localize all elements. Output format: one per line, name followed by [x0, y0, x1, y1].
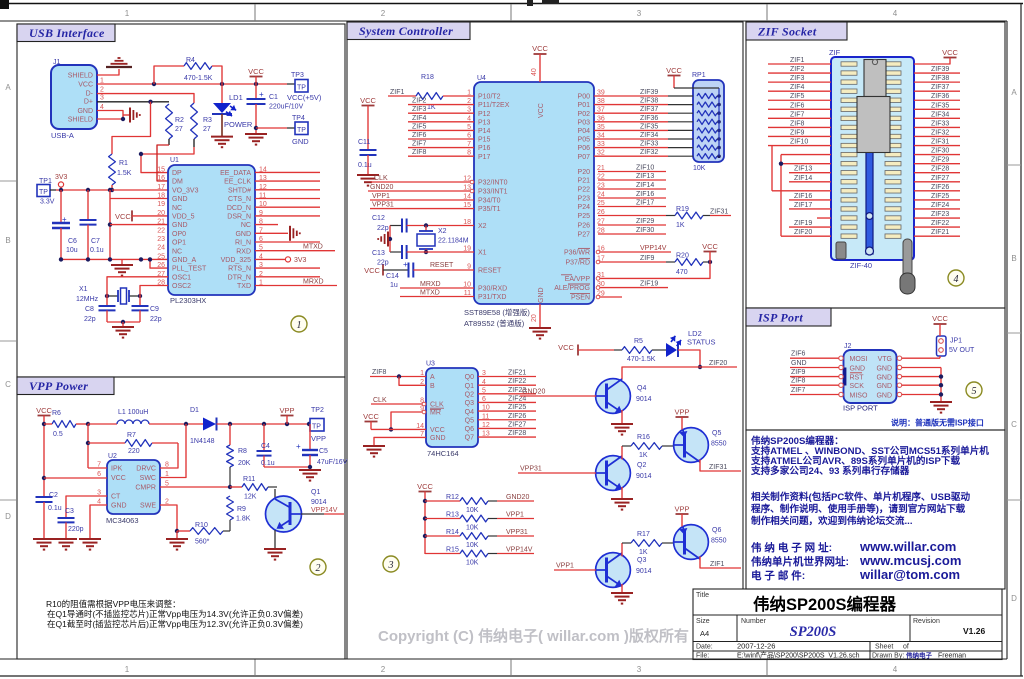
capacitor C7 0.1u	[87, 190, 89, 219]
svg-text:VCC: VCC	[363, 412, 379, 421]
ZIF socket pads	[841, 62, 857, 66]
transistor Q1 9014	[274, 489, 276, 499]
svg-text:ZIF5: ZIF5	[412, 123, 426, 130]
svg-text:NC: NC	[172, 205, 182, 212]
svg-text:ZIF35: ZIF35	[640, 123, 658, 130]
svg-text:10K: 10K	[693, 165, 706, 172]
svg-text:ZIF4: ZIF4	[412, 115, 426, 122]
resistor R13 10K	[425, 518, 460, 520]
svg-text:47uF/16V: 47uF/16V	[317, 459, 348, 466]
svg-text:MOSI: MOSI	[850, 356, 868, 363]
capacitor C14 1u	[408, 263, 410, 278]
svg-text:VPP31: VPP31	[506, 529, 528, 536]
svg-text:ZIF39: ZIF39	[640, 89, 658, 96]
svg-text:R8: R8	[238, 448, 247, 455]
svg-text:ZIF7: ZIF7	[790, 111, 804, 118]
svg-text:ZIF19: ZIF19	[640, 281, 658, 288]
wire R7 to DRVC	[160, 443, 178, 468]
capacitor C9 22p	[132, 305, 149, 307]
ZIF chip large gray	[857, 97, 890, 153]
ZIF left bracket wires	[771, 146, 773, 191]
svg-text:伟纳SP200S编程器: 伟纳SP200S编程器	[753, 594, 897, 614]
svg-text:P34/T0: P34/T0	[478, 198, 501, 205]
chassis ground at J1 GND	[123, 114, 130, 116]
svg-text:ZIF33: ZIF33	[640, 141, 658, 148]
wire VCC pin6	[44, 477, 107, 479]
svg-text:3V3: 3V3	[294, 257, 307, 264]
svg-text:在Q1截至时(插监控芯片后)正常Vpp电压为12.3V(允许: 在Q1截至时(插监控芯片后)正常Vpp电压为12.3V(允许正负0.3V偏差)	[47, 619, 303, 629]
svg-text:MRXD: MRXD	[420, 281, 441, 288]
section number 3	[383, 556, 399, 572]
wire SWC riser	[160, 424, 186, 478]
svg-text:Copyright (C) 伟纳电子( willar.com: Copyright (C) 伟纳电子( willar.com )版权所有	[378, 627, 689, 645]
svg-text:VPP Power: VPP Power	[29, 379, 88, 393]
svg-text:ZIF3: ZIF3	[790, 75, 804, 82]
svg-text:J2: J2	[844, 343, 852, 350]
ground below U3	[363, 445, 385, 447]
svg-text:P30/RXD: P30/RXD	[478, 286, 507, 293]
svg-text:P26: P26	[578, 223, 591, 230]
svg-text:www.mcusj.com: www.mcusj.com	[859, 553, 961, 568]
svg-text:OP0: OP0	[172, 231, 186, 238]
svg-text:X2: X2	[478, 223, 487, 230]
resistor R10 560*	[177, 530, 190, 532]
svg-text:伟 纳 电 子 网 址:: 伟 纳 电 子 网 址:	[751, 541, 832, 554]
svg-text:Q1: Q1	[311, 489, 320, 496]
svg-text:NC: NC	[241, 222, 251, 229]
svg-text:ZIF30: ZIF30	[931, 148, 949, 155]
ZIF chip small gray	[864, 60, 886, 97]
transistor Q2 9014	[596, 456, 631, 491]
svg-text:A: A	[1011, 88, 1017, 97]
ground below rail	[121, 259, 123, 264]
svg-text:CLK: CLK	[374, 175, 388, 182]
svg-text:C5: C5	[319, 448, 328, 455]
svg-text:GND: GND	[850, 365, 866, 372]
capacitor C8 22p	[99, 305, 116, 307]
svg-text:VPP: VPP	[311, 434, 326, 443]
U4 pin29 stub	[600, 296, 622, 298]
svg-text:EA/VPP: EA/VPP	[565, 276, 591, 283]
wire U1 pin21 gnd	[110, 224, 168, 226]
svg-text:VO_3V3: VO_3V3	[172, 187, 199, 194]
ground below Q4	[611, 423, 633, 425]
svg-text:Sheet: Sheet	[875, 644, 893, 651]
J2 right wires	[902, 357, 940, 359]
svg-text:21: 21	[157, 219, 165, 226]
wire U1 pin7 gnd	[255, 232, 288, 234]
svg-text:12MHz: 12MHz	[76, 296, 99, 303]
svg-text:ZIF3: ZIF3	[412, 106, 426, 113]
svg-text:C2: C2	[49, 492, 58, 499]
svg-text:40: 40	[531, 68, 538, 76]
wire Q5 collector ZIF31	[700, 459, 741, 471]
svg-text:Drawn By:: Drawn By:	[872, 653, 904, 660]
svg-text:ZIF13: ZIF13	[794, 166, 812, 173]
svg-text:VCC: VCC	[36, 406, 52, 415]
wire SWE to R10	[160, 505, 177, 531]
svg-text:U2: U2	[108, 453, 117, 460]
ZIF Socket header	[746, 22, 847, 40]
svg-text:在Q1导通时(不插监控芯片)正常Vpp电压为14.3V(允许: 在Q1导通时(不插监控芯片)正常Vpp电压为14.3V(允许正负0.3V偏差)	[47, 609, 303, 619]
IC U4 AT89S52	[474, 82, 594, 304]
svg-text:TP3: TP3	[291, 72, 304, 79]
svg-text:SWC: SWC	[140, 475, 156, 482]
svg-text:0.1u: 0.1u	[261, 460, 275, 467]
svg-text:P20: P20	[578, 169, 591, 176]
svg-text:GND: GND	[876, 374, 892, 381]
svg-text:P32/INT0: P32/INT0	[478, 180, 508, 187]
svg-text:B: B	[5, 236, 10, 245]
svg-text:C1: C1	[269, 94, 278, 101]
svg-text:ZIF27: ZIF27	[508, 421, 526, 428]
svg-text:VCC: VCC	[666, 66, 682, 75]
resistor R5 470-1.5K	[614, 349, 622, 351]
svg-text:P10/T2: P10/T2	[478, 94, 501, 101]
svg-text:R15: R15	[446, 547, 459, 554]
resistor R11 12K	[230, 486, 242, 488]
svg-text:Q5: Q5	[712, 430, 721, 437]
svg-text:VPP1: VPP1	[556, 563, 574, 570]
ground below C5	[299, 469, 321, 471]
svg-text:X1: X1	[79, 286, 88, 293]
svg-text:1.8K: 1.8K	[236, 516, 251, 523]
svg-text:2: 2	[100, 87, 104, 94]
svg-text:ZIF1: ZIF1	[710, 561, 724, 568]
svg-text:C9: C9	[150, 306, 159, 313]
svg-text:R19: R19	[676, 206, 689, 213]
svg-text:P16: P16	[478, 145, 491, 152]
wire Q1 emitter gnd	[274, 530, 276, 548]
svg-text:5: 5	[972, 386, 977, 397]
svg-text:Revision: Revision	[913, 618, 940, 625]
zone ticks right	[1007, 164, 1021, 166]
svg-text:P00: P00	[578, 94, 591, 101]
svg-text:B: B	[430, 383, 435, 390]
svg-text:ZIF4: ZIF4	[790, 84, 804, 91]
3V3 rail wire	[56, 189, 168, 191]
svg-text:R7: R7	[127, 432, 136, 439]
svg-text:R20: R20	[676, 253, 689, 260]
svg-text:CMPR: CMPR	[135, 485, 156, 492]
svg-text:ZIF26: ZIF26	[508, 413, 526, 420]
svg-text:ZIF37: ZIF37	[640, 106, 658, 113]
svg-text:ZIF32: ZIF32	[640, 149, 658, 156]
connector J1 USB-A	[51, 65, 97, 129]
svg-text:RESET: RESET	[430, 262, 454, 269]
resistor R9 1.8K	[227, 496, 234, 520]
svg-text:ZIF38: ZIF38	[640, 98, 658, 105]
wire Q6 collector ZIF1	[700, 556, 741, 568]
svg-text:27: 27	[203, 126, 211, 133]
svg-text:17: 17	[157, 184, 165, 191]
svg-text:GND: GND	[876, 383, 892, 390]
svg-text:10K: 10K	[466, 542, 479, 549]
corner scan mark	[0, 0, 9, 9]
svg-text:Q3: Q3	[465, 400, 474, 407]
svg-text:相关制作资料(包括PC软件、单片机程序、USB驱动: 相关制作资料(包括PC软件、单片机程序、USB驱动	[751, 491, 970, 503]
svg-text:10K: 10K	[466, 560, 479, 567]
svg-text:C11: C11	[358, 139, 370, 146]
svg-text:2007-12-26: 2007-12-26	[737, 642, 775, 651]
svg-text:23: 23	[157, 236, 165, 243]
svg-text:P01: P01	[578, 102, 591, 109]
svg-text:Q0: Q0	[465, 374, 474, 381]
svg-text:GND: GND	[876, 365, 892, 372]
svg-text:18: 18	[157, 193, 165, 200]
svg-text:MTXD: MTXD	[303, 244, 323, 251]
svg-text:SCK: SCK	[850, 383, 865, 390]
resistor R17 1K	[622, 542, 631, 544]
svg-text:ZIF34: ZIF34	[640, 132, 658, 139]
ZIF Socket section box	[746, 22, 1005, 308]
svg-text:470: 470	[676, 269, 688, 276]
svg-text:OSC1: OSC1	[172, 274, 191, 281]
ground below J2 bus	[930, 401, 952, 403]
svg-text:File:: File:	[696, 653, 709, 660]
svg-text:R2: R2	[175, 117, 184, 124]
svg-text:VTG: VTG	[878, 356, 892, 363]
svg-text:GND20: GND20	[522, 389, 545, 396]
capacitor C4 0.1u	[263, 424, 265, 451]
svg-text:R11: R11	[243, 476, 255, 483]
wire to TP4	[256, 127, 287, 129]
capacitor C3 220p	[58, 517, 75, 519]
wire crystal gnd rail	[107, 321, 140, 323]
wire U1 pin6	[255, 241, 320, 243]
svg-text:GND: GND	[292, 137, 309, 146]
svg-text:R5: R5	[634, 338, 643, 345]
svg-text:25: 25	[157, 253, 165, 260]
resistor R19 1K to ZIF31	[598, 215, 666, 217]
svg-text:1.5K: 1.5K	[117, 170, 132, 177]
svg-text:RP1: RP1	[692, 72, 706, 79]
capacitor C5 47uF/16V	[309, 424, 311, 450]
svg-text:ALE/PROG: ALE/PROG	[554, 285, 590, 292]
svg-text:470-1.5K: 470-1.5K	[184, 75, 213, 82]
section number 5	[966, 382, 982, 398]
svg-text:ZIF31: ZIF31	[931, 139, 949, 146]
svg-text:MTXD: MTXD	[420, 290, 440, 297]
svg-text:20: 20	[157, 210, 165, 217]
svg-text:ZIF6: ZIF6	[790, 102, 804, 109]
svg-text:22p: 22p	[84, 316, 96, 323]
ground below C1	[245, 133, 267, 135]
ground below C2	[33, 538, 55, 540]
svg-text:V1.26: V1.26	[963, 626, 985, 636]
svg-text:TP: TP	[297, 85, 306, 92]
svg-text:20: 20	[531, 314, 538, 322]
svg-text:ZIF9: ZIF9	[790, 129, 804, 136]
svg-text:26: 26	[157, 262, 165, 269]
svg-text:ZIF24: ZIF24	[931, 202, 949, 209]
svg-text:P25: P25	[578, 213, 591, 220]
svg-text:3V3: 3V3	[55, 174, 68, 181]
svg-text:24: 24	[157, 245, 165, 252]
resistor R14 10K	[425, 535, 460, 537]
wire crystal left rail	[389, 226, 391, 253]
svg-text:ZIF2: ZIF2	[412, 98, 426, 105]
svg-text:GND: GND	[77, 108, 93, 115]
svg-text:POWER: POWER	[224, 120, 253, 129]
svg-text:3: 3	[388, 560, 394, 571]
svg-text:VCC: VCC	[78, 82, 93, 89]
svg-text:0.1u: 0.1u	[90, 247, 104, 254]
svg-text:Q7: Q7	[465, 435, 474, 442]
resistor R2	[166, 104, 173, 139]
svg-text:EE_DATA: EE_DATA	[220, 170, 251, 177]
ISP Port header	[746, 308, 831, 326]
svg-text:VCC: VCC	[702, 242, 718, 251]
svg-text:U1: U1	[170, 157, 179, 164]
svg-text:ZIF16: ZIF16	[794, 193, 812, 200]
svg-text:ZIF8: ZIF8	[791, 378, 805, 385]
svg-text:P02: P02	[578, 111, 591, 118]
ground below Q1	[264, 548, 286, 550]
ZIF bottom tab	[836, 242, 846, 259]
svg-text:4: 4	[893, 9, 898, 18]
resistor R4	[184, 63, 212, 70]
svg-text:MISO: MISO	[850, 392, 868, 399]
svg-text:ZIF10: ZIF10	[636, 165, 654, 172]
wire SHIELD2 row	[97, 118, 123, 120]
svg-text:VCC: VCC	[942, 48, 958, 57]
ZIF lever	[903, 239, 912, 280]
wire IPK riser	[87, 424, 89, 468]
svg-text:ZIF10: ZIF10	[790, 139, 808, 146]
svg-text:TP2: TP2	[311, 407, 324, 414]
svg-text:22.1184M: 22.1184M	[438, 238, 469, 245]
svg-text:伟纳单片机世界网址:: 伟纳单片机世界网址:	[751, 555, 849, 568]
wire U1 pin26	[150, 259, 168, 268]
svg-text:AT89S52 (普通版): AT89S52 (普通版)	[464, 318, 525, 328]
svg-text:MC34063: MC34063	[106, 516, 139, 525]
wire JP1 to VTG	[939, 356, 941, 358]
svg-text:CT: CT	[111, 494, 121, 501]
zone ticks bottom	[254, 659, 256, 676]
wire CMPR	[160, 486, 230, 488]
svg-text:VCC: VCC	[430, 427, 445, 434]
svg-text:ZIF22: ZIF22	[931, 220, 949, 227]
svg-text:C: C	[5, 380, 11, 389]
svg-text:VPP: VPP	[674, 505, 689, 514]
svg-text:L1 100uH: L1 100uH	[118, 409, 148, 416]
svg-text:GND: GND	[172, 222, 188, 229]
svg-text:Freeman: Freeman	[938, 653, 966, 660]
svg-text:P11/T2EX: P11/T2EX	[478, 102, 510, 109]
svg-text:R6: R6	[52, 410, 61, 417]
ground below R10 left	[176, 531, 178, 538]
svg-text:22p: 22p	[150, 316, 162, 323]
svg-text:C4: C4	[261, 443, 270, 450]
svg-text:ZIF20: ZIF20	[709, 360, 727, 367]
svg-text:STATUS: STATUS	[687, 338, 715, 347]
wire Q4 emitter gnd	[621, 410, 623, 423]
svg-text:SWE: SWE	[140, 503, 156, 510]
wire GND row to chassis	[97, 111, 123, 120]
svg-text:ZIF14: ZIF14	[636, 182, 654, 189]
ground rail under C6 C7	[61, 258, 168, 260]
svg-text:D: D	[5, 512, 11, 521]
svg-text:U3: U3	[426, 361, 435, 368]
svg-text:3: 3	[637, 9, 642, 18]
svg-text:20K: 20K	[238, 460, 251, 467]
svg-text:22p: 22p	[377, 225, 389, 232]
zone ticks top	[254, 4, 256, 21]
resistor R16 1K	[622, 445, 631, 447]
svg-text:ZIF31: ZIF31	[709, 464, 727, 471]
svg-text:PL2303HX: PL2303HX	[170, 296, 206, 305]
svg-text:MRXD: MRXD	[303, 279, 324, 286]
svg-text:1: 1	[125, 9, 130, 18]
svg-text:220p: 220p	[68, 526, 84, 533]
svg-text:R12: R12	[446, 494, 459, 501]
svg-text:Size: Size	[696, 618, 710, 625]
svg-text:ZIF8: ZIF8	[372, 369, 386, 376]
svg-text:2: 2	[381, 665, 386, 674]
svg-text:P13: P13	[478, 119, 491, 126]
wire LD1 to ground	[221, 114, 223, 136]
svg-text:ZIF17: ZIF17	[636, 200, 654, 207]
svg-text:ZIF36: ZIF36	[640, 115, 658, 122]
svg-text:ZIF34: ZIF34	[931, 111, 949, 118]
ISP Port section box	[746, 308, 1005, 430]
svg-text:TXD: TXD	[237, 283, 251, 290]
crystal X2 22.1184M	[425, 226, 427, 232]
svg-text:C7: C7	[91, 238, 100, 245]
wire Q2 emitter gnd	[621, 487, 623, 498]
chassis ground crystal	[387, 232, 389, 247]
svg-text:OSC2: OSC2	[172, 283, 191, 290]
svg-text:3: 3	[637, 665, 642, 674]
svg-text:ZIF8: ZIF8	[412, 149, 426, 156]
svg-text:System Controller: System Controller	[359, 24, 453, 38]
svg-text:R1: R1	[119, 160, 128, 167]
svg-text:10u: 10u	[66, 247, 78, 254]
ground below crystal	[112, 326, 134, 328]
svg-text:TP: TP	[297, 127, 306, 134]
svg-text:Date:: Date:	[696, 644, 713, 651]
VPP Power header	[17, 377, 114, 395]
svg-text:DRVC: DRVC	[136, 466, 156, 473]
svg-text:ZIF6: ZIF6	[412, 132, 426, 139]
svg-text:RST: RST	[850, 374, 865, 381]
svg-text:2: 2	[316, 563, 321, 574]
svg-text:Q6: Q6	[465, 426, 474, 433]
wire R4 to LED	[212, 66, 222, 103]
svg-text:P21: P21	[578, 178, 591, 185]
svg-text:P06: P06	[578, 145, 591, 152]
svg-text:ZIF32: ZIF32	[931, 129, 949, 136]
svg-text:ZIF1: ZIF1	[790, 57, 804, 64]
svg-text:EE_CLK: EE_CLK	[224, 179, 251, 186]
svg-text:27: 27	[175, 126, 183, 133]
svg-text:C6: C6	[68, 238, 77, 245]
svg-text:ISP PORT: ISP PORT	[843, 404, 878, 413]
capacitor C6 10u	[60, 190, 62, 222]
svg-text:DP: DP	[172, 170, 182, 177]
wire D+ row	[97, 101, 169, 103]
svg-text:TP: TP	[312, 424, 321, 431]
title block	[693, 589, 1002, 660]
sheet outer border	[0, 3, 1023, 5]
svg-text:R10的阻值需根据VPP电压来调整：: R10的阻值需根据VPP电压来调整：	[46, 599, 181, 609]
svg-text:GND: GND	[876, 392, 892, 399]
svg-text:SST89E58 (增强版): SST89E58 (增强版)	[464, 307, 530, 317]
svg-text:willar@tom.com: willar@tom.com	[859, 567, 960, 582]
transistor Q4 9014	[596, 379, 631, 414]
svg-text:E:\winf\产品\SP200\SP200S_V1.26.: E:\winf\产品\SP200\SP200S_V1.26.sch	[737, 651, 860, 660]
